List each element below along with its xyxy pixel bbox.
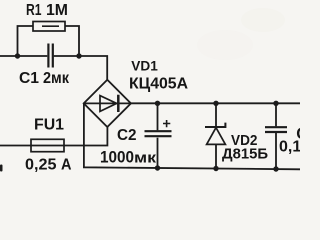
bridge inner diode cathode bar — [117, 95, 120, 112]
svg-text:С3: С3 — [296, 125, 300, 143]
wire: bottom AC input line through fuse to bridge bottom vertex — [0, 126, 107, 146]
svg-text:2мк: 2мк — [43, 70, 70, 87]
svg-text:1000: 1000 — [100, 149, 134, 167]
capacitor C2 top plate — [145, 130, 172, 132]
svg-text:0,25: 0,25 — [25, 156, 57, 173]
svg-text:1M: 1M — [46, 2, 68, 19]
bridge inner diode line — [84, 102, 130, 104]
svg-text:КЦ405А: КЦ405А — [129, 76, 188, 93]
zener VD2 triangle — [207, 128, 226, 145]
faint scan blob — [241, 8, 285, 32]
svg-text:FU1: FU1 — [34, 116, 64, 133]
wire: R1 parallel branch left riser — [18, 26, 34, 56]
scan smudge left edge — [0, 165, 3, 172]
zener VD2 bottom lead — [215, 144, 217, 168]
junction node VD2 bottom — [213, 166, 218, 171]
wire: R1 parallel branch right riser — [65, 26, 79, 56]
resistor R1 power-rating dash — [42, 25, 59, 27]
capacitor C2 bottom lead — [157, 138, 159, 168]
capacitor C2 top lead — [157, 103, 159, 130]
junction node C3 bottom — [273, 166, 278, 171]
capacitor C3 bottom lead — [275, 133, 277, 169]
bridge rectifier VD1 diamond — [84, 80, 131, 127]
capacitor C3 top plate — [265, 126, 287, 128]
svg-text:C1: C1 — [19, 70, 39, 87]
wire: plus output top rail — [130, 102, 300, 104]
capacitor C3 top lead — [275, 103, 277, 126]
junction node C2 bottom — [155, 165, 160, 170]
svg-text:Д815Б: Д815Б — [222, 145, 268, 162]
zener VD2 cathode bar with bent end — [205, 123, 225, 127]
resistor R1 body — [33, 22, 65, 32]
svg-text:A: A — [61, 156, 72, 173]
svg-text:C2: C2 — [117, 127, 137, 144]
zener diode VD2 top lead — [215, 103, 217, 127]
junction node left R1/C1 — [15, 53, 20, 58]
junction node VD2 top — [213, 101, 218, 106]
svg-text:R1: R1 — [26, 2, 42, 19]
capacitor C1 left plate — [47, 44, 49, 68]
junction node C2 top — [155, 101, 160, 106]
fuse FU1 body — [31, 139, 64, 151]
capacitor C3 bottom plate — [265, 131, 287, 133]
svg-text:мк: мк — [134, 151, 157, 167]
capacitor C2 bottom plate — [145, 135, 172, 137]
wire: bridge minus output drop + bottom rail — [84, 103, 300, 169]
junction node C3 top — [273, 101, 278, 106]
paper background — [0, 0, 300, 180]
junction node right R1/C1 — [76, 53, 81, 58]
capacitor C1 right plate — [52, 44, 54, 68]
capacitor C2 plus sign — [163, 120, 170, 127]
svg-text:VD1: VD1 — [131, 58, 158, 74]
bridge inner diode triangle — [100, 96, 117, 112]
wire: top AC input line to bridge top vertex — [0, 56, 107, 81]
